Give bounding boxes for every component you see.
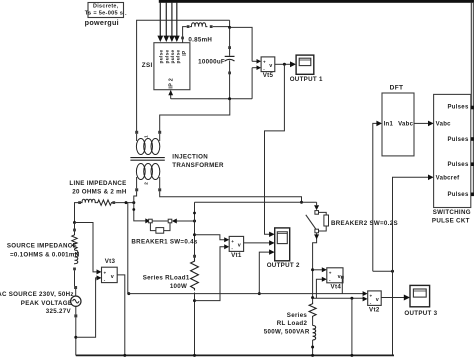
svg-text:Discrete,: Discrete,: [93, 4, 119, 10]
wire: IP2 / cap bottom node rail: [171, 97, 252, 100]
svg-text:.: .: [125, 11, 127, 17]
svg-text:-: -: [104, 277, 106, 282]
svg-text:-: -: [231, 246, 233, 251]
capacitor C1 10000uF: [198, 27, 234, 98]
svg-text:AC SOURCE 230V, 50Hz: AC SOURCE 230V, 50Hz: [0, 291, 74, 298]
wire: tap down to breaker 1: [132, 203, 150, 224]
source impedance R + L (=0.1 OHMS & 0.001mH): [72, 221, 78, 270]
svg-text:325.27V: 325.27V: [46, 308, 72, 315]
wire: signal rail down from line node: [127, 203, 130, 296]
node: DC link +: [228, 20, 231, 29]
svg-text:v: v: [269, 63, 272, 69]
wire: Vt4 output down to Vt2 + line: [341, 279, 343, 294]
svg-text:PEAK VOLTAGE: PEAK VOLTAGE: [21, 300, 73, 307]
block DFT: [382, 84, 414, 156]
wire: Vt2 output to OUTPUT 3: [381, 295, 410, 301]
svg-text:pulse: pulse: [158, 49, 164, 63]
resistor RLoad1 (Series RLoad1 100W): [191, 259, 199, 356]
svg-text:Pulses: Pulses: [447, 192, 469, 198]
svg-text:PULSE CKT: PULSE CKT: [432, 217, 470, 224]
wire: pulse 2 line to inverter: [163, 3, 169, 43]
inverter ZSI block: [154, 43, 190, 90]
label: LINE IMPEDANCE 20 OHMS & 2 mH: [69, 180, 127, 195]
svg-text:LINE IMPEDANCE: LINE IMPEDANCE: [69, 180, 126, 187]
powergui block: [85, 3, 127, 28]
svg-text:Vt4: Vt4: [331, 284, 342, 291]
svg-text:Vabc: Vabc: [398, 122, 414, 128]
breaker B1: [149, 219, 172, 233]
voltage measurement Vt2: [368, 291, 382, 313]
svg-text:IP: IP: [182, 50, 188, 56]
wire: pulses riser at far right edge (from Pulses 2-4): [472, 3, 474, 195]
wire: Vt1 output to OUTPUT 2 input 2: [244, 240, 275, 245]
scope OUTPUT 2: [267, 228, 300, 269]
wire: In1 feed riser: [373, 121, 394, 273]
svg-text:SOURCE IMPEDANCE: SOURCE IMPEDANCE: [7, 242, 77, 249]
port: Pulses 4: [471, 193, 474, 197]
wire: Vt3 output down to bus: [117, 275, 125, 356]
svg-text:500W, 500VAR: 500W, 500VAR: [264, 329, 310, 336]
port: Pulses 3: [471, 162, 474, 166]
wire: Vt4 + tap: [313, 267, 327, 272]
block SWITCHING PULSE CKT: [432, 94, 471, 224]
wire: load2 top to Vt2 - with bus riser: [313, 296, 368, 355]
label: Series RL Load2 500W, 500VAR: [264, 312, 310, 336]
wire: Vt3 + tap from source node: [75, 223, 102, 281]
transformer T1 (injection transformer): [130, 131, 164, 192]
wire: Vt1 + tap: [195, 235, 230, 243]
port: Pulses 1: [471, 106, 474, 110]
svg-text:10000uF: 10000uF: [198, 59, 225, 66]
wire: pulses feedback bus (top edge): [159, 0, 474, 3]
svg-text:ZSI: ZSI: [142, 62, 153, 69]
wire: pulses riser at right edge (from Pulses 1): [470, 3, 472, 108]
svg-text:+: +: [263, 59, 266, 64]
svg-text:20 OHMS & 2 mH: 20 OHMS & 2 mH: [72, 188, 127, 195]
label: SOURCE IMPEDANCE =0.1OHMS & 0.001mH: [7, 242, 80, 258]
wire: OUTPUT 2 input 3 riser: [258, 249, 275, 295]
svg-text:-: -: [263, 67, 265, 72]
wire: load bus horizontal: [195, 201, 317, 203]
svg-text:+: +: [370, 293, 373, 298]
resistor + inductor RL Load2 (500W, 500VAR): [309, 303, 316, 356]
wire: line impedance to transformer secondary left: [115, 191, 136, 204]
svg-text:-: -: [370, 300, 372, 305]
wire: IP output elbow to filter inductor: [183, 27, 187, 43]
svg-text:-: -: [329, 278, 331, 283]
svg-text:0.85mH: 0.85mH: [188, 36, 212, 43]
svg-text:powergui: powergui: [85, 18, 119, 27]
svg-text:=0.1OHMS & 0.001mH: =0.1OHMS & 0.001mH: [10, 251, 80, 258]
voltage measurement Vt5: [252, 57, 275, 79]
voltage measurement Vt4: [327, 268, 344, 291]
wire: load bus to breaker 2: [314, 202, 319, 210]
inductor L1 0.85mH: [187, 23, 213, 44]
svg-text:Vabc: Vabc: [436, 122, 452, 128]
svg-text:INJECTION: INJECTION: [172, 154, 208, 161]
svg-text:RL Load2: RL Load2: [277, 320, 308, 327]
breaker B2: [306, 211, 329, 233]
wire: Vabcref feed riser down to bus: [393, 175, 434, 356]
voltage measurement Vt3: [102, 258, 118, 283]
svg-text:+: +: [104, 270, 107, 275]
AC source V1: [71, 270, 81, 355]
wire: cap top branch to Vt5 +: [230, 27, 253, 61]
wire: inductor to DC node: [213, 26, 230, 28]
svg-text:100W: 100W: [170, 283, 187, 290]
svg-text:Vt3: Vt3: [105, 258, 116, 265]
svg-text:v: v: [238, 243, 241, 249]
label: INJECTION TRANSFORMER: [172, 154, 224, 169]
svg-text:pulse: pulse: [164, 49, 170, 63]
svg-text:2: 2: [144, 182, 149, 185]
svg-text:Vabcref: Vabcref: [436, 176, 460, 182]
svg-text:In1: In1: [384, 122, 394, 128]
wire: load line from transformer secondary right: [160, 191, 303, 204]
svg-text:Vt2: Vt2: [369, 306, 380, 313]
label: AC SOURCE 230V, 50Hz PEAK VOLTAGE 325.27V: [0, 291, 74, 315]
svg-text:TRANSFORMER: TRANSFORMER: [172, 162, 224, 169]
svg-text:OUTPUT 3: OUTPUT 3: [404, 310, 437, 317]
wire: long horizontal to Vt2 +: [128, 291, 368, 296]
wire: bottom neutral bus: [76, 354, 394, 357]
wire: pulse 1 line to inverter: [157, 3, 163, 43]
svg-text:IP 2: IP 2: [169, 78, 175, 89]
svg-text:+: +: [231, 239, 234, 244]
svg-text:Series: Series: [287, 312, 308, 319]
svg-text:Pulses: Pulses: [447, 137, 469, 143]
port: Pulses 2: [471, 137, 474, 141]
svg-text:pulse: pulse: [170, 49, 176, 63]
wire: Vt5 output to OUTPUT 1: [275, 61, 296, 67]
svg-text:OUTPUT 2: OUTPUT 2: [267, 262, 300, 269]
wire: load1 column: [193, 202, 196, 258]
svg-text:v: v: [376, 297, 379, 303]
scope OUTPUT 3: [404, 285, 437, 316]
svg-text:SWITCHING: SWITCHING: [433, 209, 471, 216]
svg-text:pulse: pulse: [176, 49, 182, 63]
label: Series RLoad1 100W: [143, 275, 190, 290]
node: source neutral tap to Vt3 -: [74, 278, 97, 339]
wire: Vt5 signal down to OUTPUT 2 input 1: [265, 64, 285, 237]
line impedance L + R (20 OHMS & 2 mH): [78, 199, 115, 205]
wire: DFT output to switching block: [414, 121, 434, 127]
wire: Vt5 - riser: [251, 68, 253, 99]
svg-text:Pulses: Pulses: [447, 105, 469, 111]
svg-text:BREAKER2 SW=0.2S: BREAKER2 SW=0.2S: [331, 220, 398, 227]
svg-text:DFT: DFT: [390, 84, 404, 91]
wire: Vt1 - tap: [195, 244, 230, 300]
wire: DC+ rail to transformer primary left: [137, 20, 230, 132]
svg-text:1: 1: [144, 135, 149, 138]
svg-text:+: +: [329, 270, 332, 275]
svg-text:Ts = 5e-005 s: Ts = 5e-005 s: [85, 11, 123, 17]
svg-text:Pulses: Pulses: [447, 162, 469, 168]
svg-text:OUTPUT 1: OUTPUT 1: [290, 76, 323, 83]
wire: breaker 1 to load1 column: [172, 219, 196, 224]
svg-text:v: v: [111, 274, 114, 280]
scope OUTPUT 1: [290, 55, 323, 83]
svg-text:BREAKER1 SW=0.4s: BREAKER1 SW=0.4s: [131, 239, 197, 246]
wire: pulse 3 line to inverter: [169, 3, 175, 43]
wire: transformer primary right to cap bottom node: [160, 99, 230, 132]
wire: Vt4 - tap: [316, 277, 326, 299]
wire: source column top corner to line impedance: [75, 203, 80, 223]
svg-text:Series RLoad1: Series RLoad1: [143, 275, 190, 282]
svg-text:v: v: [338, 274, 341, 280]
voltage measurement Vt1: [229, 236, 243, 259]
wire: breaker 2 down to load2 column: [313, 233, 320, 270]
wire: pulse 4 line to inverter: [174, 3, 180, 43]
wire: IP2 return into inverter bottom: [168, 90, 173, 99]
wire: load2 column upper: [311, 268, 314, 302]
svg-text:Vt1: Vt1: [231, 252, 242, 259]
svg-text:Vt5: Vt5: [263, 72, 274, 79]
